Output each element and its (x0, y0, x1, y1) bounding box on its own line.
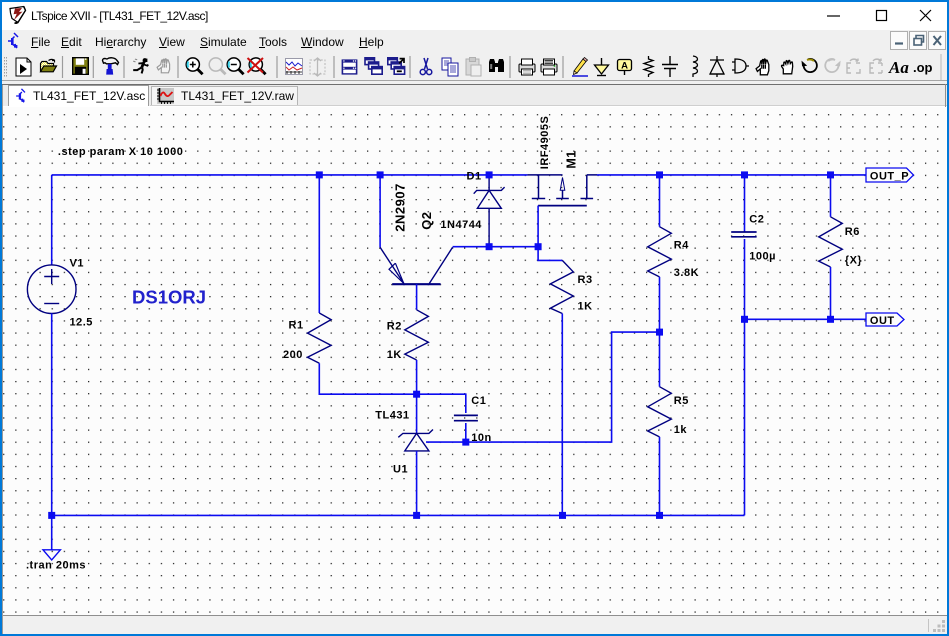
wire V1 top (51, 175, 53, 265)
value 3.8K (674, 267, 699, 279)
label R4 (674, 240, 689, 252)
value 100u (749, 250, 776, 262)
mosfet M1 (527, 175, 597, 206)
svg-text:R5: R5 (674, 395, 689, 407)
wire R3 bottom (561, 314, 563, 516)
svg-text:IRF4905S: IRF4905S (539, 116, 551, 170)
wire C2 top (744, 175, 746, 232)
svg-text:M1: M1 (564, 150, 578, 168)
wire C1 bottom (465, 423, 467, 442)
svg-text:R1: R1 (289, 319, 304, 331)
junction top R1 (316, 171, 323, 178)
ground (43, 550, 60, 560)
flag OUT (866, 313, 904, 327)
wire R1 top (318, 175, 320, 313)
wire R5 bottom (659, 437, 661, 516)
wire ground stub (51, 515, 53, 549)
wire U1 ref to feedback (426, 332, 660, 442)
value 1k (674, 424, 688, 436)
label V1 (70, 258, 84, 270)
tab bar (1, 85, 948, 106)
TL431 U1 (398, 394, 433, 515)
svg-text:A: A (621, 61, 628, 72)
svg-text:200: 200 (283, 349, 303, 361)
resistor R2 (405, 310, 429, 360)
resistor R3 (550, 260, 573, 313)
svg-text:.step param X 10 1000: .step param X 10 1000 (58, 146, 183, 158)
junction rail R5 (656, 512, 663, 519)
svg-text:C2: C2 (749, 213, 764, 225)
transistor Q2 (380, 247, 453, 284)
directive .tran (26, 559, 86, 571)
flag OUT_P (866, 168, 914, 183)
voltage source V1 (27, 265, 76, 314)
junction top D1 (486, 171, 493, 178)
svg-text:3.8K: 3.8K (674, 267, 699, 279)
wire output lower (745, 318, 867, 320)
wire R6 bottom (830, 267, 832, 319)
wire R4 top (659, 175, 661, 227)
junction C1 bottom (462, 439, 469, 446)
label R1 (289, 319, 304, 331)
value {X} (845, 255, 863, 267)
title bar (0, 0, 949, 32)
wire C2 bottom (744, 239, 746, 319)
menu bar (1, 30, 948, 52)
svg-text:R4: R4 (674, 240, 689, 252)
wire M1 gate (537, 206, 539, 247)
wire rail riser (744, 319, 746, 515)
wire R6 top (830, 175, 832, 217)
svg-text:D1: D1 (467, 170, 482, 182)
junction rail V1 (48, 512, 55, 519)
schematic canvas (3, 107, 946, 615)
label R5 (674, 395, 689, 407)
svg-text:DS1ORJ: DS1ORJ (132, 287, 206, 308)
label R6 (845, 226, 860, 238)
zener diode D1 (474, 175, 505, 247)
wire top rail left (52, 174, 528, 176)
label C1 (471, 395, 486, 407)
junction rail R3 (559, 512, 566, 519)
junction C2 bottom (741, 316, 748, 323)
svg-text:R6: R6 (845, 226, 860, 238)
junction top R4 (656, 171, 663, 178)
label R3 (578, 274, 593, 286)
svg-text:U1: U1 (393, 463, 408, 475)
window borders (0, 0, 2, 636)
svg-text:1k: 1k (674, 424, 688, 436)
svg-text:.op: .op (913, 60, 933, 75)
label Q2 (419, 211, 434, 229)
svg-text:R3: R3 (578, 274, 593, 286)
junction R6 bottom (827, 316, 834, 323)
wire R4 bottom (659, 277, 661, 387)
svg-text:2N2907: 2N2907 (393, 183, 408, 232)
label U1 (393, 463, 408, 475)
app icon (8, 5, 28, 25)
annotation DS1ORJ (132, 287, 206, 308)
wire C1 top (417, 394, 466, 413)
junction top C2 (741, 171, 748, 178)
directive .step (58, 146, 183, 158)
wire Q2 emitter (379, 175, 381, 247)
svg-text:Aa: Aa (888, 58, 909, 77)
svg-text:12.5: 12.5 (70, 317, 93, 329)
value 12.5 (70, 317, 93, 329)
wire Q2 collector (453, 246, 538, 248)
junction M1 gate (535, 243, 542, 250)
svg-text:1N4744: 1N4744 (440, 219, 482, 231)
junction R1 R2 node (413, 391, 420, 398)
value 200 (283, 349, 303, 361)
resistor R5 (648, 387, 672, 437)
junction top Q2 (377, 171, 384, 178)
value 2N2907 (393, 183, 408, 232)
svg-text:.tran 20ms: .tran 20ms (26, 559, 86, 571)
label TL431 (375, 410, 409, 422)
junction rail U1 (413, 512, 420, 519)
junction top R6 (827, 171, 834, 178)
value 1K (578, 301, 593, 313)
label D1 (467, 170, 482, 182)
wire R1 bottom (319, 363, 416, 394)
capacitor C1 (454, 415, 478, 420)
resistor R6 (819, 217, 843, 267)
wire Q2 base (416, 284, 418, 310)
status bar (1, 615, 948, 634)
label R2 (387, 320, 402, 332)
junction D1 anode (486, 243, 493, 250)
svg-text:R2: R2 (387, 320, 402, 332)
wire bottom rail (52, 514, 745, 516)
value 10n (471, 432, 491, 444)
resistor R4 (648, 227, 672, 277)
MDI window buttons (890, 31, 948, 51)
capacitor C2 (731, 232, 756, 237)
svg-text:OUT: OUT (870, 315, 895, 327)
svg-text:OUT_P: OUT_P (870, 171, 909, 183)
svg-text:100µ: 100µ (749, 250, 776, 262)
caption buttons (820, 0, 949, 30)
value 1K (387, 349, 402, 361)
svg-text:TL431: TL431 (375, 410, 409, 422)
value 1N4744 (440, 219, 482, 231)
wire gate node to R3 (538, 247, 562, 261)
toolbar (1, 52, 948, 84)
label C2 (749, 213, 764, 225)
resistor R1 (308, 313, 332, 363)
svg-text:1K: 1K (387, 349, 402, 361)
wire R2 bottom (416, 360, 418, 394)
svg-text:Q2: Q2 (419, 211, 434, 229)
junction R4 R5 node (656, 329, 663, 336)
wire top rail right (597, 174, 866, 176)
svg-text:{X}: {X} (845, 255, 863, 267)
svg-text:1K: 1K (578, 301, 593, 313)
svg-text:C1: C1 (471, 395, 486, 407)
label M1 (564, 150, 578, 168)
wire V1 bottom (51, 314, 53, 516)
svg-text:V1: V1 (70, 258, 84, 270)
value IRF4905S (539, 116, 551, 170)
